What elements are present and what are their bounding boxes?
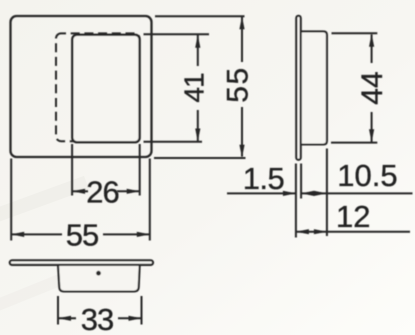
svg-text:26: 26	[86, 174, 118, 209]
extension line plate right face	[300, 164, 302, 199]
arrow right at plate left face (1.5)	[283, 191, 296, 196]
arrow right 26	[127, 189, 140, 194]
arrow left 12	[296, 229, 309, 234]
extension line from recess bottom edge	[144, 141, 203, 143]
side view: cup profile	[301, 31, 327, 144]
arrow left 55 bottom	[11, 232, 24, 237]
front view: dashed hidden cup outline	[56, 33, 140, 141]
faint scan smudge lower-left	[0, 176, 89, 227]
extension line plate left face	[295, 164, 297, 238]
svg-text:10.5: 10.5	[337, 158, 397, 193]
extension lines for bottom 55	[10, 159, 12, 241]
bottom view: screw hole dot	[96, 271, 101, 276]
arrow right 12	[314, 229, 327, 234]
arrow down 41	[195, 129, 200, 142]
front view: inner recess opening 26x41	[72, 35, 139, 142]
svg-text:55: 55	[222, 66, 255, 102]
dimension line 55 bottom	[11, 233, 62, 235]
dimension line 55 right (vertical)	[241, 17, 243, 62]
extension line cup top to 44 dim	[332, 32, 378, 34]
svg-text:1.5: 1.5	[243, 161, 285, 196]
svg-text:44: 44	[356, 71, 389, 104]
side view: face plate (capsule)	[296, 16, 300, 160]
extension line from recess top edge	[144, 33, 210, 35]
bottom view: thin face plate	[10, 260, 153, 265]
svg-text:41: 41	[179, 73, 210, 103]
arrow right at cup right face (10.5)	[314, 191, 327, 196]
arrow up 41	[195, 35, 200, 48]
svg-text:33: 33	[81, 302, 113, 335]
arrow left 33	[58, 316, 71, 321]
extension line cup right face	[326, 149, 328, 237]
arrow left 26	[72, 189, 85, 194]
extension lines for 33	[57, 296, 59, 325]
arrow down 44	[369, 129, 374, 142]
svg-text:55: 55	[66, 218, 98, 253]
bottom view: recess cup	[58, 263, 140, 292]
dimension line 12	[296, 231, 410, 233]
arrow right 33	[129, 316, 142, 321]
extension line from square top edge	[155, 15, 245, 17]
faint scan smudge bottom-left	[0, 270, 73, 315]
dimension line 44 (vertical)	[371, 35, 373, 64]
dimension line 1.5 / 10.5	[227, 192, 296, 194]
dimension line 41 (vertical)	[197, 35, 199, 66]
dimension line 33	[58, 317, 76, 319]
arrow right 55 bottom	[137, 232, 150, 237]
front view: outer square plate 55x55	[11, 16, 152, 157]
dimension line 26	[72, 190, 88, 192]
extension lines for 26	[71, 144, 73, 196]
arrow left at plate right face (1.5/10.5)	[301, 191, 314, 196]
svg-text:12: 12	[336, 199, 370, 234]
arrow up 55 right	[239, 16, 244, 29]
arrow up 44	[369, 34, 374, 47]
arrow down 55 right	[239, 145, 244, 158]
extension line cup bottom to 44 dim	[331, 142, 377, 144]
extension line from square bottom edge	[154, 157, 246, 159]
